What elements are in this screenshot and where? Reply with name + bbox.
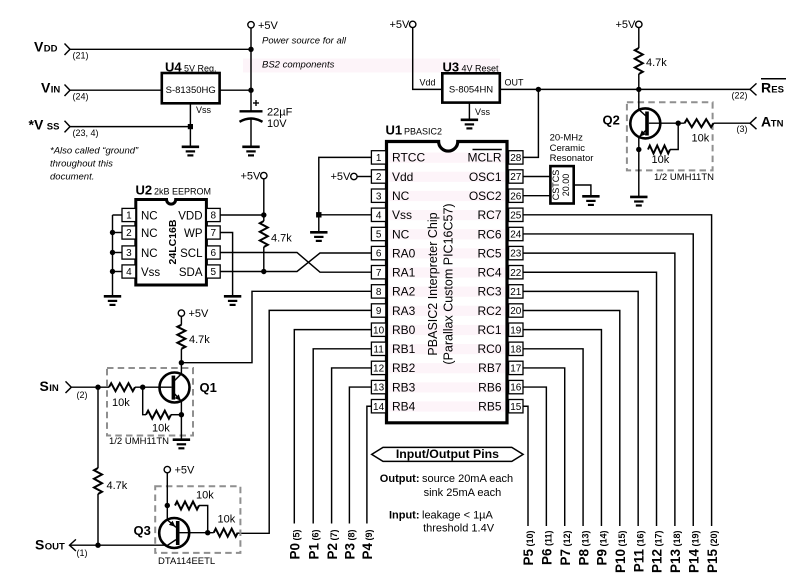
svg-text:RTCC: RTCC: [392, 151, 425, 165]
svg-text:RC4: RC4: [477, 266, 501, 280]
svg-text:21: 21: [510, 287, 522, 298]
svg-text:BS2 components: BS2 components: [262, 60, 335, 71]
power +5V terminal Q3: [164, 466, 170, 472]
pin 17 of U1: [509, 361, 523, 374]
svg-text:Vss: Vss: [141, 267, 160, 279]
comment ground note: [50, 146, 139, 183]
svg-text:13: 13: [373, 383, 385, 394]
svg-text:Resonator: Resonator: [550, 153, 594, 164]
svg-text:(Parallax Custom PIC16C57): (Parallax Custom PIC16C57): [442, 203, 456, 364]
svg-text:SDA: SDA: [179, 267, 203, 279]
svg-text:Vss: Vss: [392, 208, 412, 222]
wire pin4 Vss: [319, 214, 372, 216]
svg-text:6: 6: [376, 249, 382, 260]
svg-text:NC: NC: [392, 227, 410, 241]
svg-text:RB3: RB3: [392, 380, 416, 394]
node ATN label: [761, 114, 784, 130]
svg-text:SCL: SCL: [180, 248, 203, 260]
svg-text:1: 1: [126, 211, 132, 222]
ground resonator: [582, 196, 599, 205]
svg-text:4.7k: 4.7k: [107, 480, 128, 492]
svg-text:10: 10: [373, 325, 385, 336]
svg-text:4.7k: 4.7k: [189, 334, 210, 346]
junction SDA node: [261, 269, 266, 274]
power +5V terminal U3: [410, 21, 416, 27]
wire SDA crossover: [220, 253, 371, 272]
svg-text:RC6: RC6: [477, 227, 501, 241]
svg-text:RC2: RC2: [477, 304, 501, 318]
comment resonator label: [550, 133, 594, 165]
comment power note: [262, 36, 347, 71]
wire RES to Q2: [638, 89, 640, 110]
svg-text:DTA114EETL: DTA114EETL: [158, 556, 215, 567]
wire Q3 upper res down: [199, 506, 208, 533]
junction Q1 collector: [179, 360, 184, 365]
wire 4.7k to SDA: [263, 247, 265, 272]
svg-text:Input/Output Pins: Input/Output Pins: [396, 447, 499, 461]
wire pin11 to P1: [313, 349, 371, 524]
wire be-res to emitter: [171, 414, 181, 416]
svg-text:(24): (24): [73, 92, 89, 102]
pin 16 of U1: [509, 380, 523, 393]
resistor R-SDA 4.7k: [260, 221, 268, 247]
wire U2 pin3: [113, 252, 123, 254]
wire U4 Vss to ground: [189, 103, 191, 147]
junction MCLR/OUT: [536, 87, 541, 92]
svg-text:OUT: OUT: [505, 78, 525, 88]
connector VSS bracket: [65, 121, 71, 133]
wire pin10 to P0: [294, 330, 371, 524]
reset U3 body: [442, 73, 500, 102]
svg-text:4V Reset: 4V Reset: [462, 64, 500, 74]
transistor Q2: [630, 108, 660, 138]
svg-text:source 20mA each: source 20mA each: [422, 473, 513, 485]
svg-text:(1): (1): [77, 548, 88, 558]
resistor Q3 upper 10k: [175, 502, 199, 510]
svg-text:U1: U1: [386, 123, 403, 138]
svg-text:5: 5: [376, 230, 382, 241]
svg-text:+5V: +5V: [258, 20, 279, 32]
value 22uF 10V: [267, 107, 293, 131]
svg-text:10k: 10k: [152, 423, 170, 435]
wire +5V to Q3: [166, 473, 168, 521]
pin 1 of U2: [122, 208, 136, 221]
svg-text:1/2 UMH11TN: 1/2 UMH11TN: [109, 436, 169, 447]
wire SCL crossover: [220, 253, 371, 273]
wire pin14 to P4: [367, 406, 372, 523]
junction SIN: [95, 385, 100, 390]
svg-text:RC7: RC7: [477, 208, 501, 222]
ground cap: [242, 147, 259, 156]
wire Q1 be-res: [143, 387, 146, 415]
svg-text:DD: DD: [44, 44, 58, 55]
pin 6 of U1: [371, 246, 385, 259]
svg-text:NC: NC: [392, 189, 410, 203]
junction VDD node: [261, 212, 266, 217]
svg-text:RC3: RC3: [477, 285, 501, 299]
connector SOUT bracket: [70, 539, 76, 551]
svg-text:10k: 10k: [652, 154, 670, 166]
capacitor C1: [240, 111, 263, 122]
enclosure Q1 dashed: [107, 368, 193, 436]
wire +5V to VDD node: [263, 179, 265, 221]
svg-text:1/2 UMH11TN: 1/2 UMH11TN: [654, 172, 714, 183]
svg-text:28: 28: [510, 153, 522, 164]
wire Q3 base: [180, 532, 214, 534]
pin 5 of U2: [206, 265, 220, 278]
node VSS label: [29, 117, 60, 133]
svg-text:CSTCS: CSTCS: [551, 170, 561, 201]
junction VSS square: [188, 124, 193, 129]
regulator U4 label: [165, 60, 217, 75]
wire pin21 to P11: [523, 291, 638, 526]
svg-text:RA0: RA0: [392, 246, 416, 260]
pin 2 of U1: [371, 170, 385, 183]
svg-text:Q1: Q1: [200, 380, 217, 395]
pin 18 of U1: [509, 342, 523, 355]
connector VDD bracket: [65, 44, 71, 56]
svg-text:RB6: RB6: [478, 380, 502, 394]
ground U4: [182, 147, 199, 156]
svg-text:20.00: 20.00: [561, 174, 571, 197]
svg-text:23: 23: [510, 249, 522, 260]
svg-text:Q2: Q2: [603, 113, 620, 128]
wire +5V to 4.7k: [180, 316, 182, 325]
pin 1 of U1: [371, 151, 385, 164]
pin 19 of U1: [509, 323, 523, 336]
svg-text:NC: NC: [141, 228, 158, 240]
wire VIN to U4: [70, 89, 162, 91]
svg-text:10k: 10k: [112, 397, 130, 409]
svg-text:+5V: +5V: [175, 464, 196, 476]
wire SIN: [71, 386, 109, 388]
wire U4 out: [220, 89, 251, 91]
node RES label: [761, 79, 786, 96]
wire RES line: [500, 88, 750, 90]
wire pin17 to P7: [523, 368, 565, 526]
svg-text:IN: IN: [49, 383, 59, 394]
wire SIN to SOUT rail: [97, 387, 99, 468]
svg-text:10k: 10k: [196, 490, 214, 502]
svg-text:(22): (22): [732, 90, 748, 100]
resistor Q1 base-emitter 10k: [146, 411, 171, 419]
wire pin26 OSC2: [523, 195, 550, 197]
svg-text:20: 20: [510, 306, 522, 317]
wire pin22 to P12: [523, 272, 657, 526]
node SIN label: [40, 378, 59, 394]
ground U3: [461, 120, 478, 129]
svg-text:OSC1: OSC1: [469, 170, 502, 184]
svg-text:S: S: [40, 378, 49, 394]
svg-text:RB1: RB1: [392, 342, 416, 356]
capacitor C1 plus: [253, 100, 259, 106]
svg-text:A: A: [761, 114, 771, 130]
svg-text:VDD: VDD: [178, 210, 202, 222]
svg-text:SS: SS: [47, 122, 60, 133]
wire 10k to Q1 base: [135, 386, 172, 388]
svg-text:V: V: [34, 39, 44, 55]
svg-text:RB2: RB2: [392, 361, 416, 375]
svg-text:10V: 10V: [267, 118, 287, 130]
wire pin27 OSC1: [523, 176, 550, 178]
wire SOUT: [70, 544, 167, 546]
svg-text:S-81350HG: S-81350HG: [166, 85, 216, 96]
svg-text:(3): (3): [737, 124, 748, 134]
note output: [380, 473, 513, 485]
svg-text:Output:: Output:: [380, 473, 420, 485]
connector RES bracket: [750, 83, 757, 95]
wire pin13 to P3: [349, 387, 371, 523]
resistor Q2 base 10k: [685, 119, 714, 127]
svg-text:5: 5: [211, 267, 217, 278]
transistor Q3: [159, 518, 189, 548]
wire pin1 RTCC to gnd bus: [319, 157, 372, 214]
ground U2 bus: [104, 296, 121, 305]
wire VDD to +5V rail: [70, 48, 251, 50]
svg-text:22µF: 22µF: [267, 107, 293, 119]
connector SIN bracket: [66, 381, 72, 393]
junction bus pin2: [110, 230, 115, 235]
ground U1 Vss: [310, 232, 327, 241]
wire U2 pin2: [113, 232, 123, 234]
svg-text:NC: NC: [141, 210, 158, 222]
resistor Q2 base-emitter 10k: [648, 146, 670, 154]
wire gnd stub: [318, 215, 320, 233]
wire pin16 to P6: [523, 387, 546, 526]
reset U3 label: [443, 60, 500, 75]
svg-text:Input:: Input:: [389, 509, 420, 521]
svg-text:(2): (2): [77, 390, 88, 400]
wire U2 pin4: [113, 271, 123, 273]
banner Input/Output Pins: [372, 447, 523, 461]
svg-text:TN: TN: [771, 119, 784, 130]
svg-text:Power source for all: Power source for all: [262, 36, 347, 47]
svg-text:RC1: RC1: [477, 323, 501, 337]
svg-text:*V: *V: [29, 117, 44, 133]
svg-text:26: 26: [510, 191, 522, 202]
junction VIN rail: [248, 88, 253, 93]
decor: [243, 59, 505, 412]
svg-text:8: 8: [376, 287, 382, 298]
regulator U4: [162, 73, 220, 103]
pin 25 of U1: [509, 208, 523, 221]
svg-text:10k: 10k: [218, 514, 236, 526]
svg-text:+5V: +5V: [189, 308, 210, 320]
svg-text:Vdd: Vdd: [420, 78, 436, 88]
connector VIN bracket: [65, 85, 71, 97]
svg-text:(21): (21): [73, 51, 89, 61]
svg-text:8: 8: [211, 211, 217, 222]
pin 23 of U1: [509, 246, 523, 259]
svg-text:RA2: RA2: [392, 285, 416, 299]
svg-text:leakage < 1µA: leakage < 1µA: [422, 509, 494, 521]
svg-text:sink 25mA each: sink 25mA each: [424, 487, 502, 499]
pin 15 of U1: [509, 400, 523, 413]
wire pin15 to P5: [523, 406, 528, 526]
junction Q2 base: [676, 121, 681, 126]
pin 24 of U1: [509, 227, 523, 240]
svg-text:ES: ES: [771, 84, 784, 95]
wire pin9 RA3 to Q3: [238, 310, 371, 533]
svg-text:IN: IN: [51, 85, 61, 96]
svg-text:+5V: +5V: [241, 170, 262, 182]
svg-text:4.7k: 4.7k: [646, 57, 667, 69]
svg-text:18: 18: [510, 344, 522, 355]
note input: [389, 509, 494, 521]
ground Q1: [173, 440, 190, 449]
junction SOUT: [95, 543, 100, 548]
eeprom U2 label: [136, 183, 212, 198]
junction RTCC/Vss: [316, 212, 321, 217]
svg-text:V: V: [41, 80, 51, 96]
pin 4 of U2: [122, 265, 136, 278]
svg-text:7: 7: [376, 268, 382, 279]
svg-text:12: 12: [373, 364, 385, 375]
svg-text:+5V: +5V: [390, 19, 411, 31]
pin 21 of U1: [509, 285, 523, 298]
svg-text:11: 11: [373, 344, 384, 355]
eeprom U2 body: [136, 200, 207, 286]
svg-text:4.7k: 4.7k: [271, 233, 292, 245]
pin 5 of U1: [371, 227, 385, 240]
svg-text:9: 9: [376, 306, 382, 317]
wire pin28 MCLR: [523, 89, 538, 157]
svg-text:S: S: [35, 536, 44, 552]
pin 7 of U1: [371, 266, 385, 279]
connector ATN bracket: [750, 117, 757, 129]
svg-text:2kB EEPROM: 2kB EEPROM: [154, 187, 211, 197]
svg-text:PBASIC2 Interpreter Chip: PBASIC2 Interpreter Chip: [426, 212, 440, 355]
power +5V terminal U2: [261, 172, 267, 178]
svg-text:S-8054HN: S-8054HN: [449, 84, 493, 95]
resonator X1 body: [550, 166, 573, 203]
power +5V terminal Q1: [178, 310, 184, 316]
svg-text:14: 14: [373, 402, 385, 413]
svg-text:Vdd: Vdd: [392, 170, 413, 184]
svg-text:2: 2: [376, 172, 382, 183]
resistor R-RES 4.7k: [635, 48, 643, 74]
svg-text:RA1: RA1: [392, 266, 416, 280]
svg-text:+5V: +5V: [331, 171, 352, 183]
svg-text:RA3: RA3: [392, 304, 416, 318]
wire WP down: [220, 233, 232, 297]
pin 10 of U1: [371, 323, 385, 336]
svg-text:16: 16: [510, 383, 522, 394]
svg-text:4: 4: [376, 210, 382, 221]
enclosure Q2 dashed: [627, 102, 713, 170]
resistor R 4.7k sin-sout: [94, 468, 102, 494]
junction VDD rail: [248, 47, 253, 52]
node VIN label: [41, 80, 60, 96]
pin 8 of U2: [206, 208, 220, 221]
ic U1 label: [386, 123, 443, 138]
wire 10k to ATN: [714, 122, 751, 124]
wire pin12 to P2: [332, 368, 372, 524]
svg-text:25: 25: [510, 210, 522, 221]
wire cap to ground: [250, 119, 252, 147]
wire pin19 to P9: [523, 330, 601, 526]
pin 11 of U1: [371, 342, 385, 355]
wire 4.7k to Q1: [180, 349, 182, 376]
wire pin8 RA2 to Q1: [181, 291, 371, 362]
wire 4.7k to RES: [638, 74, 640, 89]
junction bus pin4: [110, 269, 115, 274]
svg-text:OSC2: OSC2: [469, 189, 502, 203]
pin 4 of U1: [371, 208, 385, 221]
wire pin25 to P15: [523, 215, 712, 526]
junction RES: [636, 87, 641, 92]
svg-text:Q3: Q3: [134, 523, 151, 538]
svg-text:15: 15: [510, 402, 522, 413]
pin 6 of U2: [206, 246, 220, 259]
wire U3 Vss: [468, 103, 470, 120]
svg-text:threshold 1.4V: threshold 1.4V: [423, 523, 495, 535]
svg-text:6: 6: [211, 248, 217, 259]
svg-text:24: 24: [510, 230, 522, 241]
svg-text:throughout this: throughout this: [50, 159, 113, 170]
svg-text:PBASIC2: PBASIC2: [404, 127, 442, 137]
svg-text:OUT: OUT: [45, 541, 65, 552]
junction Q3 emitter: [165, 503, 170, 508]
svg-text:3: 3: [126, 248, 132, 259]
resistor Q1 base 10k: [109, 383, 135, 391]
ic U1 body: [387, 142, 508, 423]
svg-text:1: 1: [376, 153, 382, 164]
wire +5V rail down: [250, 28, 252, 111]
pin 27 of U1: [509, 170, 523, 183]
pin 8 of U1: [371, 285, 385, 298]
junction Q3 base: [205, 530, 210, 535]
junction Q2 emitter: [636, 147, 641, 152]
wire pin24 to P14: [523, 234, 693, 526]
svg-text:RB0: RB0: [392, 323, 416, 337]
svg-text:*Also called “ground”: *Also called “ground”: [50, 146, 139, 157]
wire Q2 be-res up: [670, 123, 678, 149]
svg-text:Vss: Vss: [475, 107, 491, 117]
wire pin23 to P13: [523, 253, 675, 526]
svg-text:3: 3: [376, 191, 382, 202]
wire resonator gnd: [574, 185, 591, 197]
node SOUT label: [35, 536, 65, 552]
power +5V terminal pin2: [351, 173, 357, 179]
svg-text:+5V: +5V: [616, 19, 637, 31]
svg-text:RB5: RB5: [478, 400, 502, 414]
wire Q2 base: [649, 122, 685, 124]
svg-text:R: R: [761, 79, 771, 95]
wire U2 pin1 to bus: [113, 214, 123, 216]
svg-text:MCLR: MCLR: [467, 151, 501, 165]
enclosure Q3 dashed: [155, 486, 240, 553]
svg-text:17: 17: [510, 364, 522, 375]
pin 22 of U1: [509, 266, 523, 279]
resistor Q1 pullup 4.7k: [177, 325, 185, 349]
svg-text:Vss: Vss: [196, 105, 212, 115]
overline MCLR: [473, 149, 502, 151]
pin 14 of U1: [371, 400, 385, 413]
wire U2 bus down: [112, 215, 114, 297]
svg-text:U2: U2: [136, 183, 153, 198]
resistor R-RES 4.7k wire: [616, 19, 643, 48]
pin 13 of U1: [371, 380, 385, 393]
svg-text:document.: document.: [50, 172, 94, 183]
junction Q1 base: [140, 385, 145, 390]
wire U2 pin8 to +5V: [220, 214, 264, 216]
svg-text:RC5: RC5: [477, 246, 501, 260]
svg-text:2: 2: [126, 228, 132, 239]
pin 3 of U2: [122, 246, 136, 259]
power +5V terminal: [248, 22, 254, 28]
pin 7 of U2: [206, 226, 220, 239]
